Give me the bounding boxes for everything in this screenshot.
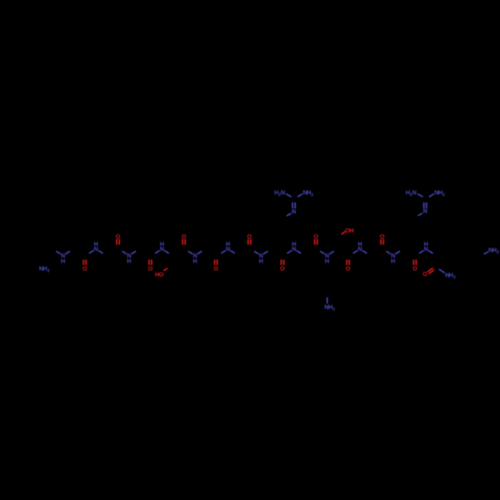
node N-terminal amine NH2 bbox=[39, 266, 50, 273]
C=O double bond line 1 C3 bbox=[148, 260, 150, 266]
C=O double bond line 2 C5 bbox=[216, 260, 218, 266]
svg-text:O: O bbox=[280, 265, 285, 272]
C=O double bond line 2 C3 bbox=[151, 260, 153, 266]
wire N-C bond half (down-right) at N10 bbox=[363, 251, 367, 254]
wire CH2-N bond half (Lys12) bbox=[484, 252, 488, 255]
C=O double bond line 1 C1 bbox=[83, 260, 85, 266]
C=O double bond line 2 C2 bbox=[118, 239, 120, 245]
node guanidine NH2 (Arg11) bbox=[434, 189, 445, 196]
svg-text:H: H bbox=[259, 258, 263, 265]
C=N double bond line 1 (Arg7) bbox=[292, 202, 294, 208]
svg-text:H: H bbox=[61, 258, 65, 265]
C=O double bond line 2 C11 bbox=[415, 260, 417, 266]
amide N-H N9 bbox=[325, 253, 329, 265]
wire N-C bond half (down-left) at N12 bbox=[419, 251, 423, 254]
wire N-C bond half (up-left) at N9 bbox=[320, 251, 324, 254]
amide N-H N6 bbox=[226, 241, 230, 253]
C=O double bond line 1 C6 bbox=[247, 239, 249, 245]
wire N-CH2 bond half (Arg11) bbox=[418, 213, 423, 216]
C=O double bond line 2 C6 bbox=[250, 239, 252, 245]
svg-text:O: O bbox=[159, 271, 164, 278]
wire H2N-C bond half (Arg11) bbox=[418, 194, 423, 197]
C=O double bond line 1 C7 bbox=[280, 260, 282, 266]
node C-terminal amide NH2 bbox=[445, 272, 456, 279]
svg-text:N: N bbox=[292, 208, 296, 215]
C=O double bond line 1 C11 bbox=[413, 260, 415, 266]
svg-text:H: H bbox=[94, 241, 98, 248]
C=O double bond line 2 C4 bbox=[184, 239, 186, 245]
C=O double bond line 1 C5 bbox=[214, 260, 216, 266]
svg-text:O: O bbox=[423, 271, 428, 278]
wire N-C bond half (down-left) at N8 bbox=[287, 251, 291, 254]
C=O double bond line 2 C9 bbox=[348, 260, 350, 266]
svg-text:H: H bbox=[350, 227, 354, 234]
node lysine NH2 (Lys12) bbox=[488, 247, 499, 254]
wire N-CH2 bond half (Arg7) bbox=[287, 213, 292, 216]
wire N-C bond half (down-right) at N6 bbox=[231, 251, 235, 254]
C=O double bond line 1 C8 bbox=[314, 239, 316, 245]
wire N-C bond half (up-right) at N3 bbox=[132, 251, 136, 254]
svg-text:H: H bbox=[292, 241, 296, 248]
svg-text:O: O bbox=[82, 265, 87, 272]
C=N double bond line 2 (Arg7) bbox=[294, 202, 296, 208]
wire C-N bond half (C-terminal amide) bbox=[439, 269, 444, 273]
wire N-C bond half (up-left) at N5 bbox=[188, 251, 192, 254]
wire N-C bond half (up-right) at N11 bbox=[396, 251, 400, 254]
amide N-H N2 bbox=[94, 241, 98, 253]
C=O double bond line 1 C10 bbox=[380, 239, 382, 245]
wire N-C bond half (down-right) at N2 bbox=[99, 251, 103, 254]
wire O-CH2 bond half (Ser9) bbox=[341, 231, 345, 234]
node guanidine NH2 (Arg7) bbox=[303, 189, 314, 196]
wire N-C bond half (down-left) at N2 bbox=[89, 251, 93, 254]
wire N-C bond half (up-right) at N9 bbox=[330, 251, 334, 254]
wire N-C bond half (down-left) at N10 bbox=[353, 251, 357, 254]
wire N-C bond half (up-left) at N1 bbox=[56, 251, 60, 254]
node guanidine H2N (Arg11) bbox=[406, 189, 417, 196]
wire N-C bond half (down-right) at N8 bbox=[297, 251, 301, 254]
amide N-H N7 bbox=[259, 253, 263, 265]
amide N-H N11 bbox=[391, 253, 395, 265]
svg-text:H: H bbox=[160, 241, 164, 248]
svg-text:O: O bbox=[214, 265, 219, 272]
wire N-C bond half (up-left) at N7 bbox=[254, 251, 258, 254]
wire N-C bond half (down-left) at N4 bbox=[155, 251, 159, 254]
C=O double bond line 1 C2 bbox=[116, 239, 118, 245]
amide N-H N4 bbox=[160, 241, 164, 253]
amide N-H N5 bbox=[193, 253, 197, 265]
svg-text:N: N bbox=[423, 208, 427, 215]
wire N-C bond half (up-left) at N11 bbox=[386, 251, 390, 254]
C-terminal C=O double bond line 2 bbox=[427, 268, 433, 272]
wire O-CH2 bond half (Ser4) bbox=[164, 268, 168, 270]
amide N-H N1 bbox=[61, 253, 65, 265]
amide N-H N10 bbox=[358, 241, 362, 253]
svg-text:H: H bbox=[127, 258, 131, 265]
svg-text:H: H bbox=[193, 258, 197, 265]
svg-text:N: N bbox=[412, 189, 416, 196]
svg-text:H: H bbox=[226, 241, 230, 248]
amide N-H N12 bbox=[424, 241, 428, 253]
wire NH2-C bond half (Arg11) bbox=[429, 194, 434, 197]
C-terminal C=O double bond line 1 bbox=[429, 270, 435, 274]
svg-text:N: N bbox=[281, 189, 285, 196]
wire N-C bond half (up-left) at N3 bbox=[122, 251, 126, 254]
C=O double bond line 2 C7 bbox=[283, 260, 285, 266]
wire N-C bond half (down-left) at N6 bbox=[221, 251, 225, 254]
amide N-H N8 bbox=[292, 241, 296, 253]
wire N-C bond half (down-right) at N12 bbox=[429, 251, 433, 254]
C=O double bond line 1 C4 bbox=[182, 239, 184, 245]
wire H2N-C bond half (Arg7) bbox=[286, 194, 291, 197]
C=O double bond line 2 C1 bbox=[85, 260, 87, 266]
node lysine NH2 (Lys8) bbox=[324, 304, 335, 311]
wire N-C bond half (up-right) at N5 bbox=[198, 251, 202, 254]
svg-text:H: H bbox=[391, 258, 395, 265]
node guanidine H2N (Arg7) bbox=[274, 189, 285, 196]
wire NH2-C bond half (Arg7) bbox=[298, 194, 303, 197]
wire N-C bond half (up-right) at N1 bbox=[66, 251, 70, 254]
amide N-H N3 bbox=[127, 253, 131, 265]
C=O double bond line 2 C8 bbox=[316, 239, 318, 245]
svg-text:H: H bbox=[424, 241, 428, 248]
wire CH2-N bond half (Lys8) bbox=[326, 297, 328, 303]
C=O double bond line 1 C9 bbox=[346, 260, 348, 266]
C=N double bond line 2 (Arg11) bbox=[426, 202, 428, 208]
C=N double bond line 1 (Arg11) bbox=[423, 202, 425, 208]
wire N-C bond half (down-right) at N4 bbox=[165, 251, 169, 254]
svg-text:H: H bbox=[325, 258, 329, 265]
node serine hydroxyl HO (Ser4) bbox=[155, 271, 164, 278]
svg-text:O: O bbox=[148, 265, 153, 272]
wire N-C bond half (up-right) at N7 bbox=[264, 251, 268, 254]
svg-text:O: O bbox=[413, 265, 418, 272]
C=O double bond line 2 C10 bbox=[383, 239, 385, 245]
svg-text:O: O bbox=[346, 265, 351, 272]
node serine hydroxyl OH (Ser9) bbox=[345, 227, 354, 234]
svg-text:H: H bbox=[358, 241, 362, 248]
